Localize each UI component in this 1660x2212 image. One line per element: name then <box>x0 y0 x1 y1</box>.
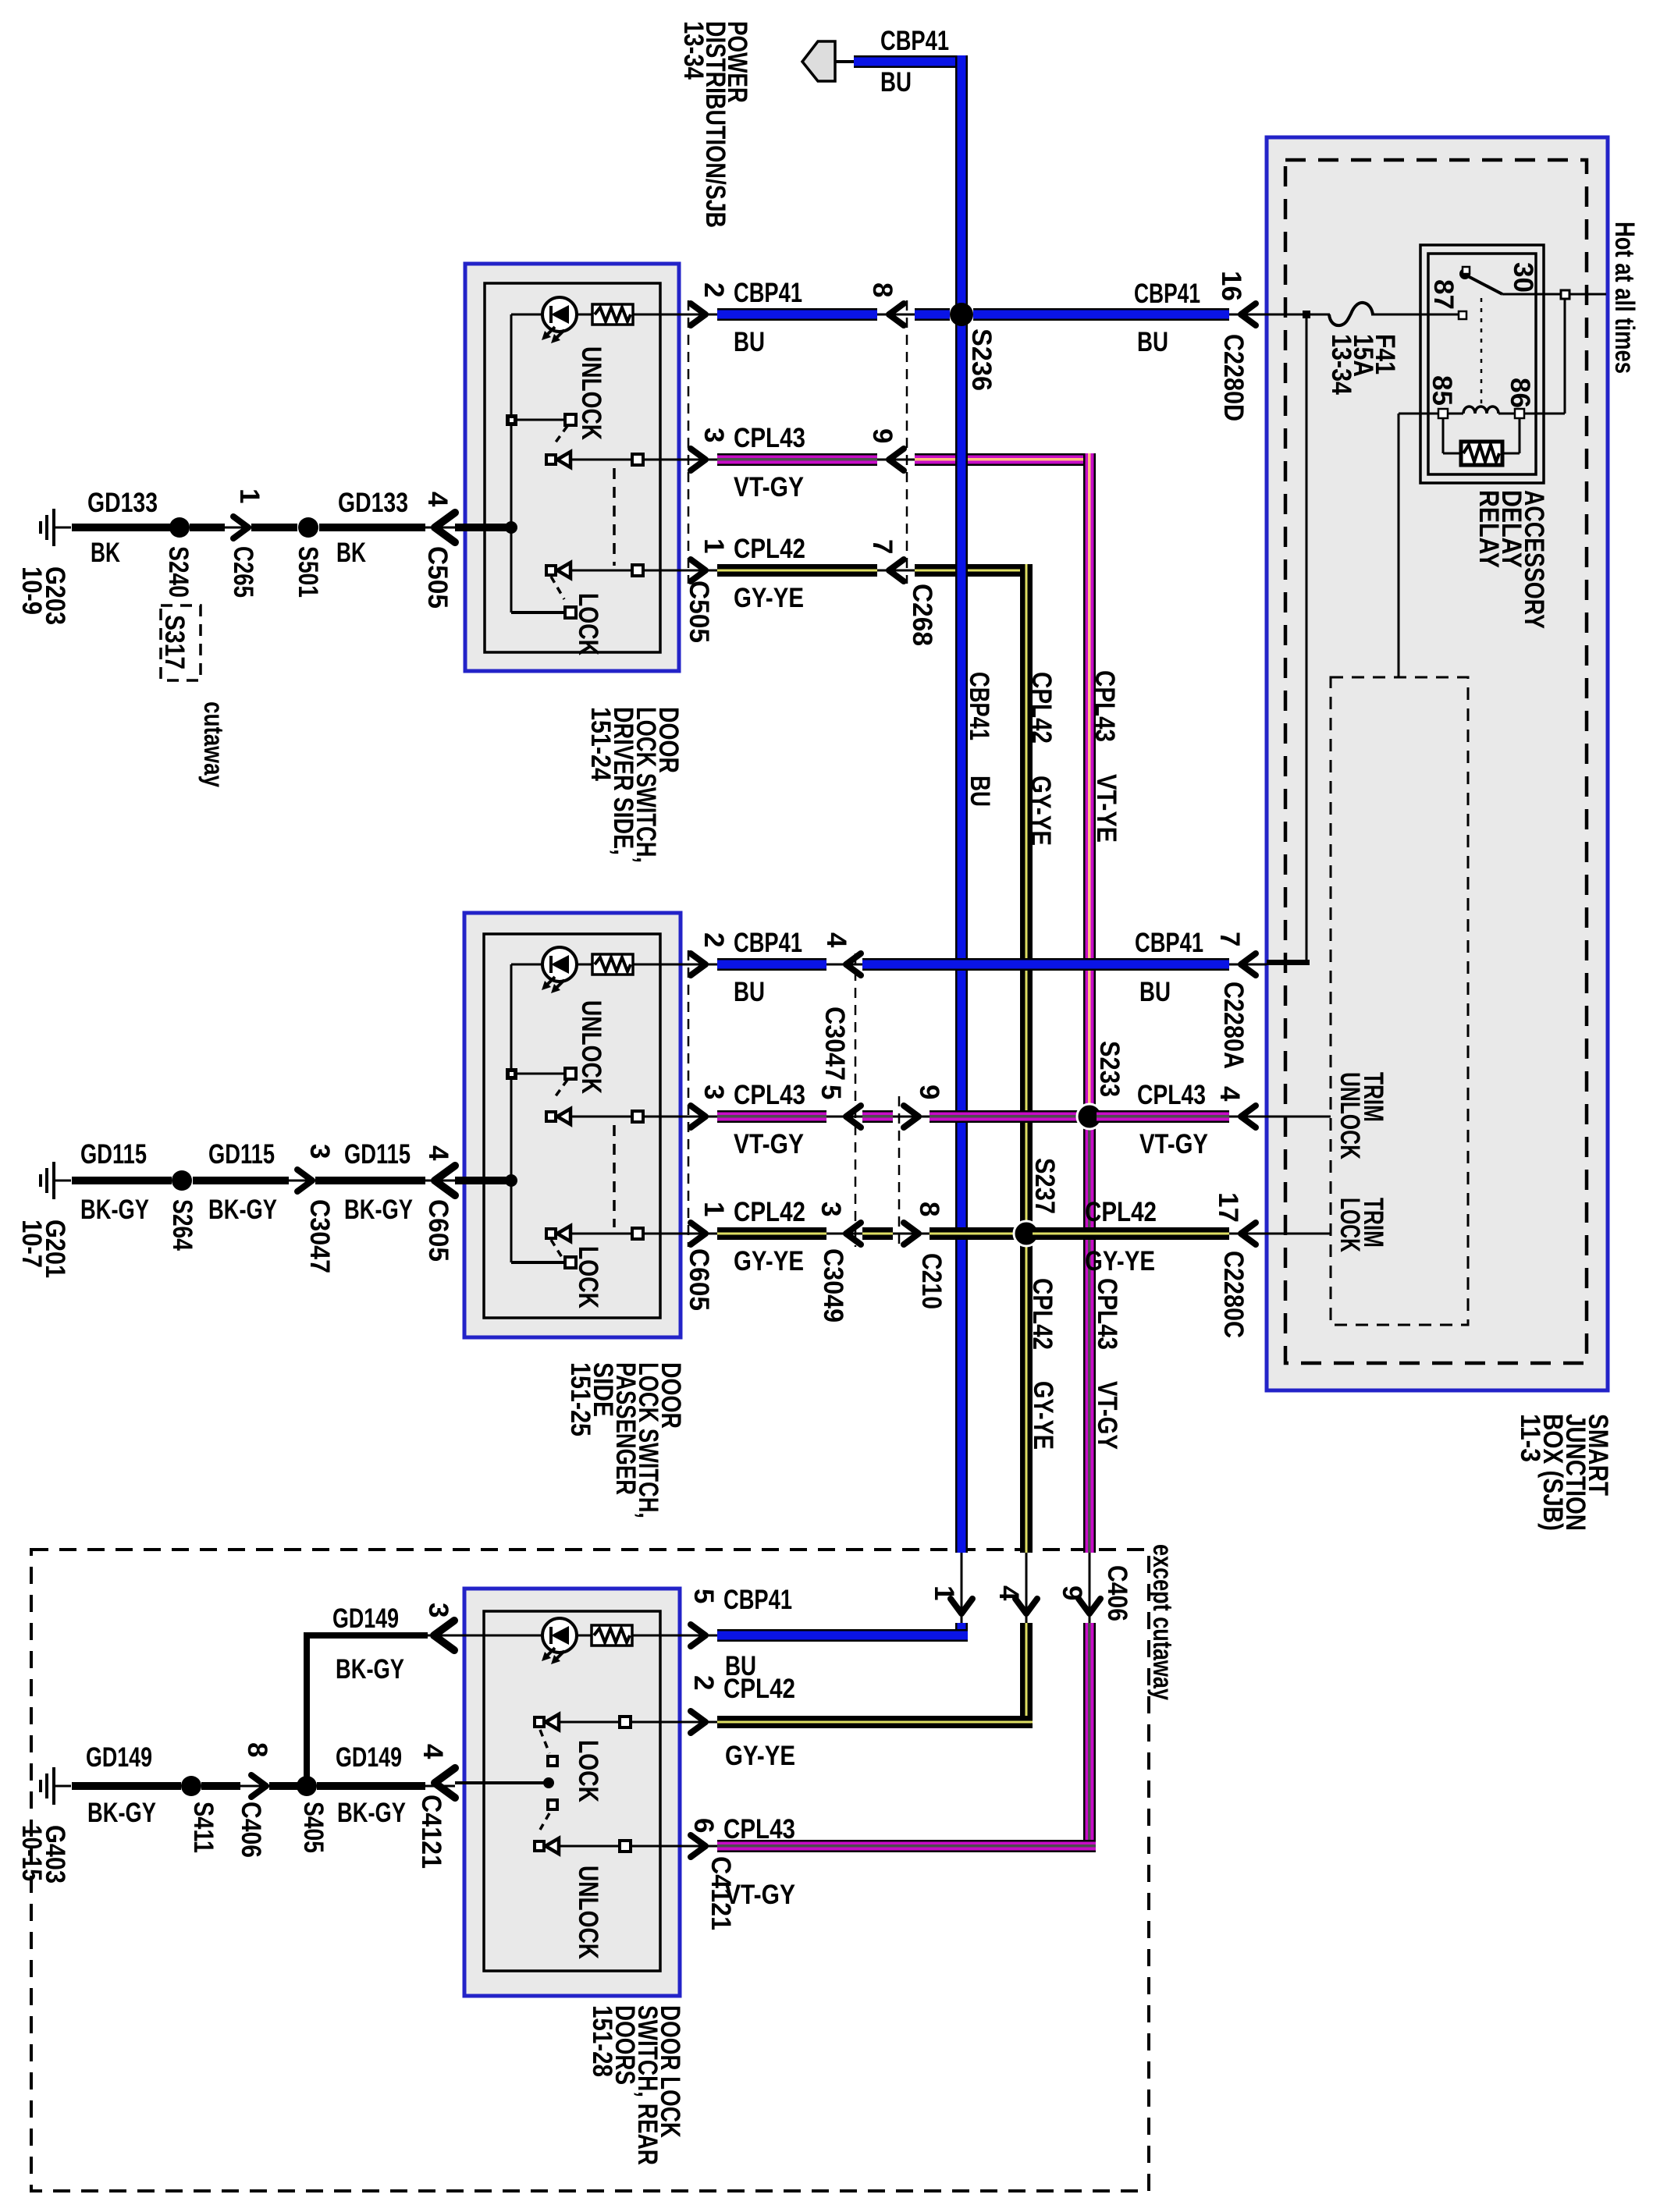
svg-text:VT-YE: VT-YE <box>1091 774 1121 843</box>
rear switch resistor <box>592 1625 632 1646</box>
svg-text:S236: S236 <box>966 328 997 391</box>
svg-text:BK-GY: BK-GY <box>87 1798 156 1828</box>
relay pin 30 line to hot junction <box>1502 293 1562 296</box>
connector arrow pin 4 C3047 <box>846 953 861 975</box>
passenger switch link dashes <box>613 1125 616 1227</box>
svg-text:GY-YE: GY-YE <box>1026 776 1056 846</box>
connector C3047 C3049 dashed line <box>855 953 857 1247</box>
svg-text:CBP41: CBP41 <box>723 1585 792 1615</box>
off-page connector POWER DISTRIBUTION/SJB <box>802 41 835 81</box>
connector arrow pin 16 C2280D <box>1241 304 1256 325</box>
relay pin 85 line to trim box <box>1399 413 1438 415</box>
svg-text:2: 2 <box>698 932 729 947</box>
svg-text:CPL42: CPL42 <box>723 1674 795 1704</box>
connector arrow pin 3 C3049 <box>846 1223 861 1244</box>
svg-text:UNLOCK: UNLOCK <box>576 346 606 440</box>
svg-text:CPL43: CPL43 <box>723 1814 795 1845</box>
svg-text:C268: C268 <box>907 584 937 646</box>
driver switch resistor <box>577 314 592 316</box>
svg-text:LOCK: LOCK <box>573 1740 603 1802</box>
wire CPL43 vertical trunk <box>1083 453 1096 1117</box>
connector arrow pin 5 rear <box>691 1624 706 1646</box>
wire GD115 segment 3 <box>315 1177 425 1184</box>
svg-text:S233: S233 <box>1094 1041 1125 1097</box>
svg-text:S264: S264 <box>167 1199 197 1251</box>
splice S264 <box>172 1170 192 1191</box>
wire CBP41 passenger row pin 2 <box>632 964 717 966</box>
connector arrow pin 9 C210 <box>904 1106 919 1127</box>
svg-text:86: 86 <box>1505 378 1535 408</box>
line hot junction to relay pin 86 <box>1564 299 1566 414</box>
splice S236 <box>950 303 973 326</box>
svg-text:11-3: 11-3 <box>1515 1414 1545 1462</box>
svg-text:CBP41: CBP41 <box>734 278 802 308</box>
svg-text:BU: BU <box>1139 977 1171 1007</box>
wire CPL42 C268 to corner <box>915 564 1033 577</box>
svg-text:C605: C605 <box>423 1199 453 1262</box>
connector arrow pin 6 rear <box>691 1835 706 1857</box>
svg-text:3: 3 <box>698 1085 729 1099</box>
svg-text:C4121: C4121 <box>706 1856 736 1930</box>
connector C268 dashed line <box>906 300 908 584</box>
wire CPL43 rear row pin 6 <box>556 1845 717 1848</box>
svg-text:BU: BU <box>1137 327 1168 357</box>
svg-text:1: 1 <box>698 1202 729 1216</box>
svg-text:C505: C505 <box>422 546 453 609</box>
relay armature dotted link <box>1480 298 1483 407</box>
svg-text:9: 9 <box>914 1085 944 1099</box>
driver switch bus <box>511 314 543 316</box>
svg-text:BK: BK <box>336 538 366 568</box>
connector arrow pin 7 C2280A <box>1241 953 1256 975</box>
svg-text:1: 1 <box>698 538 729 553</box>
CBP41 feed vertical inside SJB <box>1306 314 1308 964</box>
driver switch link dashes <box>613 468 616 566</box>
svg-text:LOCK: LOCK <box>573 593 603 655</box>
svg-text:C605: C605 <box>684 1248 714 1311</box>
passenger movable contact CPL43 <box>546 1112 556 1121</box>
connector arrow pin 4 rear C4121 <box>435 1768 455 1798</box>
wire CPL42 rear row pin 2 <box>556 1721 717 1724</box>
svg-text:CBP41: CBP41 <box>1134 279 1200 309</box>
svg-text:C265: C265 <box>228 546 258 598</box>
svg-text:CPL43: CPL43 <box>734 1080 805 1110</box>
SJB inner dashed border <box>1285 160 1587 1363</box>
svg-text:5: 5 <box>816 1085 846 1099</box>
wire CPL42 passenger row pin 1 <box>571 1233 717 1235</box>
svg-text:8: 8 <box>914 1202 944 1216</box>
passenger UNLOCK fixed contact <box>511 1073 565 1075</box>
connector arrow pin 7 C268 <box>889 559 904 581</box>
svg-text:CPL43: CPL43 <box>734 423 805 453</box>
svg-text:CPL42: CPL42 <box>1026 672 1057 744</box>
svg-text:7: 7 <box>867 539 898 554</box>
connector arrow pin 3 driver <box>691 449 706 470</box>
connector C265 pin 1 <box>233 517 248 538</box>
svg-text:GY-YE: GY-YE <box>1085 1246 1155 1276</box>
svg-text:4: 4 <box>418 1744 448 1759</box>
svg-text:CBP41: CBP41 <box>964 672 994 740</box>
svg-text:151-25: 151-25 <box>565 1362 595 1436</box>
fuse F41 <box>1329 303 1373 325</box>
svg-text:S317: S317 <box>159 615 190 669</box>
wire GD115 segment 2 <box>193 1177 289 1184</box>
svg-text:GD115: GD115 <box>344 1139 411 1170</box>
driver switch lamp <box>542 297 577 332</box>
svg-text:13-34: 13-34 <box>1326 334 1356 395</box>
driver LOCK movable contact CPL42 <box>546 566 556 575</box>
wire GD149 riser <box>304 1632 428 1639</box>
wire GD133 segment 3 <box>251 524 297 531</box>
svg-text:GD133: GD133 <box>87 488 158 518</box>
rear UNLOCK contact <box>540 1813 549 1830</box>
svg-text:8: 8 <box>867 282 898 297</box>
relay pin 30 armature <box>1459 268 1470 279</box>
TRIM UNLOCK line and label <box>1254 1116 1331 1118</box>
door lock switch rear doors box <box>464 1589 680 1996</box>
connector C505 pin 4 <box>435 513 455 542</box>
connector arrow pin 4 C2280A trim <box>1241 1106 1256 1127</box>
svg-text:GD149: GD149 <box>86 1742 152 1773</box>
svg-text:9: 9 <box>1057 1585 1087 1600</box>
wire GD115 segment 1 <box>72 1177 172 1184</box>
svg-text:17: 17 <box>1213 1192 1243 1223</box>
door lock switch passenger side box <box>464 913 681 1337</box>
svg-text:LOCK: LOCK <box>1335 1198 1365 1252</box>
splice S240 <box>169 517 190 538</box>
svg-text:S237: S237 <box>1029 1158 1060 1214</box>
svg-text:S240: S240 <box>163 546 194 598</box>
svg-text:GY-YE: GY-YE <box>734 1246 804 1276</box>
svg-text:C406: C406 <box>1102 1565 1132 1621</box>
svg-text:GD133: GD133 <box>338 488 408 518</box>
splice S317 cutaway box <box>161 605 201 680</box>
svg-text:85: 85 <box>1427 375 1457 406</box>
splice S405 <box>297 1776 317 1796</box>
connector arrow pin 5 C3049 <box>846 1106 861 1127</box>
driver pin 4 wire <box>455 524 511 531</box>
wire CPL42 vertical trunk <box>1020 564 1033 1553</box>
connector arrow pin 3 rear C4121 <box>434 1621 454 1650</box>
svg-text:cutaway: cutaway <box>198 701 229 787</box>
svg-text:C406: C406 <box>236 1802 266 1858</box>
wire GD149 segment 4 <box>317 1782 425 1790</box>
passenger switch lamp <box>542 947 577 982</box>
wire CBP41 driver row pin 2 <box>632 314 717 316</box>
svg-text:5: 5 <box>688 1589 719 1603</box>
svg-text:4: 4 <box>423 1145 453 1161</box>
driver LOCK fixed contact <box>511 611 565 614</box>
passenger LOCK movable contact CPL42 <box>546 1229 556 1238</box>
svg-text:GD115: GD115 <box>80 1139 147 1170</box>
svg-text:except cutaway: except cutaway <box>1147 1544 1178 1700</box>
wire CBP41 S236 to C2280D <box>973 308 1229 321</box>
splice S501 <box>298 517 318 538</box>
svg-text:CBP41: CBP41 <box>880 26 949 56</box>
svg-text:BK-GY: BK-GY <box>344 1195 413 1225</box>
svg-text:UNLOCK: UNLOCK <box>576 1000 606 1094</box>
svg-text:LOCK: LOCK <box>573 1246 603 1308</box>
passenger LOCK fixed contact <box>511 1261 565 1264</box>
svg-text:7: 7 <box>1214 932 1245 946</box>
svg-text:10-15: 10-15 <box>16 1825 47 1881</box>
svg-text:C2280A: C2280A <box>1218 982 1249 1069</box>
passenger switch bus <box>511 964 543 966</box>
splice S411 <box>181 1776 201 1796</box>
driver UNLOCK fixed contact <box>511 419 565 421</box>
ground G203 <box>39 521 42 534</box>
connector C406 pin 1 <box>951 1599 972 1614</box>
door lock switch driver side box <box>465 264 679 671</box>
svg-text:87: 87 <box>1428 279 1459 310</box>
wire CPL43 C268 to corner <box>915 453 1096 466</box>
rear common pivots <box>548 1756 557 1766</box>
svg-text:Hot at all times: Hot at all times <box>1609 222 1640 374</box>
svg-text:S501: S501 <box>293 546 323 598</box>
svg-text:BU: BU <box>965 776 995 807</box>
fuse F41 circuit line <box>1253 314 1330 316</box>
splice S237 <box>1014 1221 1039 1246</box>
rear switch lamp <box>542 1618 577 1653</box>
wire CPL43 below C406 <box>1083 1623 1096 1852</box>
rear LOCK fixed contact <box>535 1717 544 1727</box>
connector C505 dashed line <box>688 300 690 584</box>
connector arrow pin 2 driver <box>691 304 706 325</box>
connector arrow pin 1 driver <box>691 559 706 581</box>
svg-text:UNLOCK: UNLOCK <box>573 1866 603 1959</box>
relay coil <box>1515 409 1524 418</box>
svg-text:BU: BU <box>734 327 765 357</box>
svg-text:CBP41: CBP41 <box>734 928 802 958</box>
svg-text:CPL43: CPL43 <box>1137 1080 1206 1110</box>
connector C605 dashed line <box>688 950 690 1247</box>
passenger pin 4 wire <box>455 1177 511 1184</box>
svg-text:13-34: 13-34 <box>678 21 709 80</box>
connector C3047 pin 3 <box>297 1170 312 1191</box>
svg-text:CPL42: CPL42 <box>1085 1197 1157 1227</box>
svg-text:BU: BU <box>880 67 912 98</box>
wire CBP41 below C406 <box>955 1623 968 1642</box>
wire GD133 segment 2 <box>190 524 225 531</box>
svg-text:UNLOCK: UNLOCK <box>1335 1072 1365 1159</box>
wire CPL42 below C406 <box>1020 1623 1033 1728</box>
TRIM function dashed box <box>1331 677 1468 1325</box>
svg-text:1: 1 <box>234 488 265 503</box>
svg-text:2: 2 <box>688 1675 719 1690</box>
wire GD133 segment 4 <box>319 524 425 531</box>
relay pin 87 <box>1459 311 1466 319</box>
svg-text:CPL42: CPL42 <box>1027 1278 1057 1350</box>
connector arrow pin 2 passenger <box>691 953 706 975</box>
connector C406 pin 8 <box>251 1775 266 1797</box>
accessory delay relay box <box>1420 245 1544 483</box>
svg-text:BU: BU <box>734 977 765 1007</box>
wire GD149 segment 1 <box>72 1782 181 1790</box>
svg-text:3: 3 <box>304 1144 335 1159</box>
rear pin 4 wire <box>455 1781 549 1784</box>
connector C406 pin 4 <box>1015 1599 1037 1614</box>
wire CBP41 rear row pin 5 <box>453 1635 717 1637</box>
connector arrow pin 3 passenger <box>691 1106 706 1127</box>
svg-text:10-9: 10-9 <box>16 566 47 615</box>
smart junction box SJB outline <box>1267 137 1608 1390</box>
svg-text:8: 8 <box>242 1742 272 1757</box>
svg-text:GD115: GD115 <box>208 1139 275 1170</box>
svg-text:151-28: 151-28 <box>587 2005 617 2077</box>
svg-text:CPL43: CPL43 <box>1092 1278 1122 1350</box>
svg-text:CPL42: CPL42 <box>734 1197 805 1227</box>
connector arrow pin 9 C268 <box>889 449 904 470</box>
svg-text:3: 3 <box>816 1202 846 1216</box>
svg-text:3: 3 <box>423 1603 453 1617</box>
wire CPL43 passenger row pin 3 <box>571 1116 717 1118</box>
driver movable contact CPL43 <box>546 455 556 464</box>
svg-text:BK-GY: BK-GY <box>208 1195 277 1225</box>
svg-text:C2280D: C2280D <box>1218 334 1249 421</box>
svg-text:S411: S411 <box>188 1802 219 1853</box>
passenger switch resistor <box>577 964 592 966</box>
svg-text:RELAY: RELAY <box>1473 490 1504 568</box>
svg-text:4: 4 <box>994 1585 1024 1601</box>
svg-text:C3047: C3047 <box>304 1199 335 1273</box>
hot at all times feed line <box>1569 293 1606 296</box>
TRIM LOCK line and label <box>1254 1233 1331 1235</box>
connector C406 pin 9 <box>1079 1599 1100 1614</box>
svg-text:4: 4 <box>821 932 851 948</box>
svg-text:VT-GY: VT-GY <box>1092 1381 1122 1450</box>
svg-text:6: 6 <box>688 1818 719 1833</box>
svg-text:C4121: C4121 <box>416 1795 446 1869</box>
connector arrow pin 2 rear <box>691 1711 706 1733</box>
svg-text:3: 3 <box>698 428 729 442</box>
connector arrow pin 17 C2280C <box>1241 1223 1256 1244</box>
svg-text:30: 30 <box>1508 262 1538 293</box>
svg-text:10-7: 10-7 <box>16 1220 47 1268</box>
svg-text:C3049: C3049 <box>818 1248 848 1323</box>
wire CPL42 driver row pin 1 <box>571 570 717 572</box>
svg-text:GY-YE: GY-YE <box>734 583 804 613</box>
svg-text:CPL43: CPL43 <box>1089 670 1120 742</box>
ground G403 <box>39 1780 42 1792</box>
svg-text:16: 16 <box>1216 271 1246 301</box>
svg-text:VT-GY: VT-GY <box>734 472 804 502</box>
svg-text:1: 1 <box>929 1585 959 1600</box>
svg-text:CBP41: CBP41 <box>1135 928 1203 958</box>
relay suppression resistor <box>1442 418 1445 453</box>
svg-text:GD149: GD149 <box>332 1603 399 1634</box>
svg-text:C3047: C3047 <box>819 1007 850 1081</box>
wire CPL43 driver row pin 3 <box>571 459 717 461</box>
svg-text:C210: C210 <box>916 1253 947 1309</box>
svg-text:GD149: GD149 <box>336 1742 402 1773</box>
wire GD149 segment 3 <box>269 1782 297 1790</box>
connector arrow pin 1 passenger <box>691 1223 706 1244</box>
svg-text:151-24: 151-24 <box>585 707 616 781</box>
ground G201 <box>39 1174 42 1187</box>
svg-text:2: 2 <box>698 282 729 297</box>
svg-text:VT-GY: VT-GY <box>1139 1129 1208 1159</box>
connector arrow pin 8 C210 <box>904 1223 919 1244</box>
svg-text:BK-GY: BK-GY <box>337 1798 406 1828</box>
connector C210 dashed line <box>898 1096 901 1247</box>
svg-text:BK-GY: BK-GY <box>80 1195 149 1225</box>
svg-text:BK-GY: BK-GY <box>336 1654 404 1685</box>
svg-text:C505: C505 <box>684 581 714 643</box>
svg-text:4: 4 <box>422 492 453 507</box>
svg-text:CPL42: CPL42 <box>734 534 805 564</box>
connector arrow pin 8 C268 <box>889 304 904 325</box>
wire GD133 segment 1 <box>72 524 170 531</box>
svg-text:VT-GY: VT-GY <box>734 1129 804 1159</box>
connector C605 pin 4 <box>435 1166 455 1195</box>
svg-text:BK: BK <box>91 538 120 568</box>
C406 connector pass-through thin lines <box>961 1553 963 1623</box>
svg-text:C2280C: C2280C <box>1218 1251 1249 1338</box>
svg-text:9: 9 <box>867 428 898 443</box>
except cutaway dashed box <box>31 1550 1149 2191</box>
svg-text:GY-YE: GY-YE <box>725 1741 795 1771</box>
splice S233 <box>1077 1104 1102 1129</box>
svg-text:GY-YE: GY-YE <box>1028 1381 1058 1450</box>
svg-text:4: 4 <box>1214 1086 1245 1102</box>
svg-text:S405: S405 <box>298 1802 329 1853</box>
wire GD149 segment 2 <box>201 1782 240 1790</box>
wire CBP41 vertical trunk <box>854 55 968 68</box>
